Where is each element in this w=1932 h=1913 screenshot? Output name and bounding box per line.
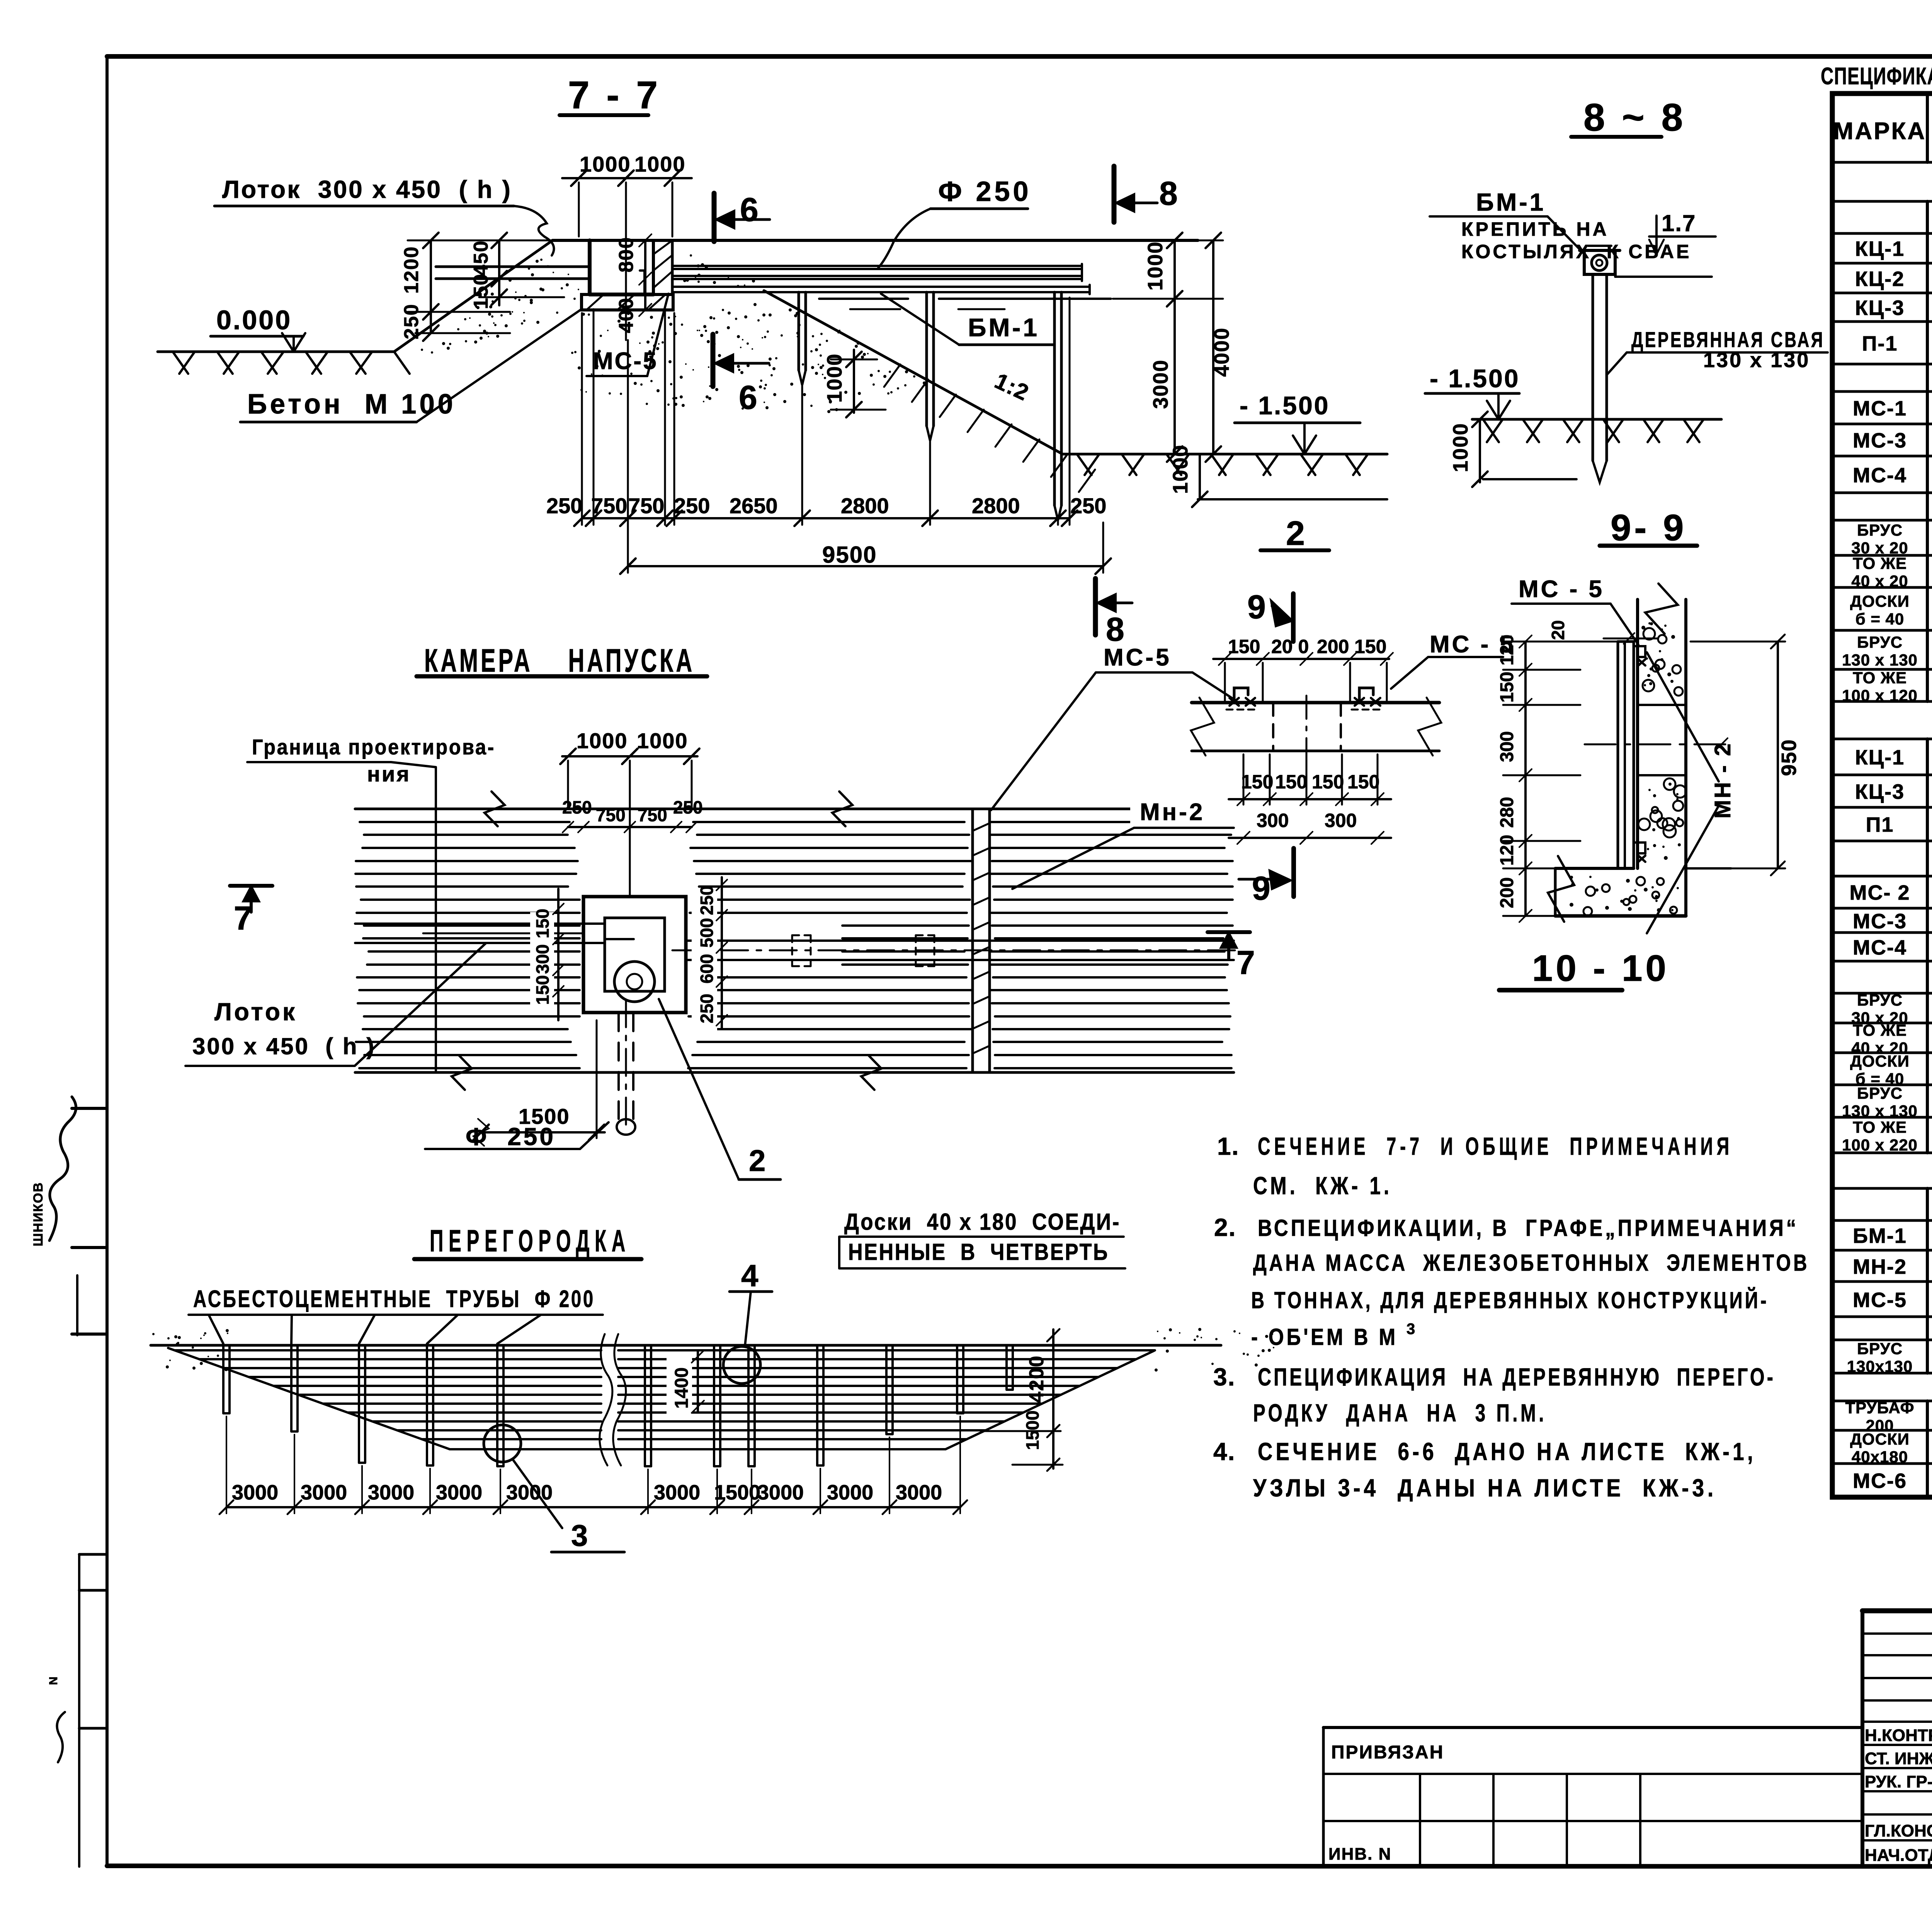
node 3 marker peregorodka [484,1425,521,1462]
svg-text:ПЕРЕГОРОДКА: ПЕРЕГОРОДКА [430,1224,631,1258]
svg-text:ТО ЖЕ: ТО ЖЕ [1853,1118,1907,1136]
svg-text:Бетон М 100: Бетон М 100 [247,389,456,420]
detail 2 clamps MC-5 [1234,688,1248,703]
svg-text:КЦ-1: КЦ-1 [1855,746,1905,769]
svg-text:7 - 7: 7 - 7 [568,73,661,117]
right vertical dimension chain 7-7 [1198,240,1223,242]
svg-text:250: 250 [400,303,423,339]
section marker 6 lower 7-7 [711,334,716,386]
svg-text:УЗЛЫ 3-4 ДАНЫ НА ЛИСТЕ КЖ-3.: УЗЛЫ 3-4 ДАНЫ НА ЛИСТЕ КЖ-3. [1253,1474,1717,1502]
svg-text:3000: 3000 [506,1481,553,1504]
svg-text:КЦ-2: КЦ-2 [1855,267,1905,291]
svg-text:- 1.500: - 1.500 [1240,391,1330,420]
lower ground right 7-7 [1063,453,1387,456]
svg-text:1.7: 1.7 [1662,210,1696,236]
svg-text:ИНВ. N: ИНВ. N [1328,1845,1391,1864]
section marker 7 right of plan [1207,930,1250,934]
svg-text:КЦ-3: КЦ-3 [1855,780,1905,803]
svg-text:1500: 1500 [714,1481,760,1504]
svg-text:ШНИКОВ: ШНИКОВ [31,1182,46,1246]
svg-text:120: 120 [1497,835,1517,866]
svg-text:2650: 2650 [730,494,778,518]
svg-text:3000: 3000 [757,1481,804,1504]
svg-text:ВСПЕЦИФИКАЦИИ, В ГРАФЕ„ПРИМЕЧ: ВСПЕЦИФИКАЦИИ, В ГРАФЕ„ПРИМЕЧАНИЯ“ [1258,1215,1799,1241]
svg-text:1400: 1400 [672,1367,692,1409]
waterline right of pile 8-8 [1615,276,1712,278]
detail 2 dims 300 300 [1229,837,1391,839]
svg-text:300 х 450 ( h ): 300 х 450 ( h ) [192,1033,376,1059]
sand dots under chamber 7-7 [740,371,743,374]
svg-text:МН - 2: МН - 2 [1710,742,1735,819]
svg-text:- ОБ'ЕМ В М: - ОБ'ЕМ В М [1251,1324,1398,1350]
svg-text:2: 2 [1286,514,1305,552]
svg-text:130 х 130: 130 х 130 [1842,651,1918,669]
svg-text:400: 400 [615,297,638,333]
plan left rotated dims 150 300 150 [530,912,554,1013]
svg-text:МС - 5: МС - 5 [1519,576,1604,602]
svg-text:150: 150 [1275,771,1307,793]
boundary line vertical plan [435,767,437,1071]
pile 8-8 [1592,275,1594,461]
svg-text:ДАНА МАССА ЖЕЛЕЗОБЕТОННЫХ ЭЛ: ДАНА МАССА ЖЕЛЕЗОБЕТОННЫХ ЭЛЕМЕНТОВ [1253,1250,1810,1276]
svg-text:3: 3 [571,1518,588,1552]
svg-text:БМ-1: БМ-1 [1853,1224,1907,1248]
svg-text:МС-5: МС-5 [1104,644,1172,671]
svg-text:БРУС: БРУС [1857,1339,1903,1358]
pipe lines plan to the right [686,939,1234,942]
svg-text:150: 150 [532,909,553,938]
svg-text:3000: 3000 [232,1481,278,1504]
svg-text:40х180: 40х180 [1852,1448,1908,1466]
svg-text:20: 20 [1548,620,1568,640]
svg-text:1000: 1000 [1449,423,1472,472]
svg-text:КАМЕРА НАПУСКА: КАМЕРА НАПУСКА [424,642,695,679]
spec table vertical lines [1926,94,1929,162]
svg-text:750: 750 [638,805,667,825]
svg-text:3000: 3000 [896,1481,942,1504]
svg-text:750: 750 [596,805,626,825]
axis dash-dot line 10-10 [1585,744,1731,745]
svg-text:130х130: 130х130 [1847,1357,1913,1375]
svg-text:РУК. ГР-: РУК. ГР- [1865,1772,1932,1791]
svg-text:МН-2: МН-2 [1853,1255,1907,1278]
svg-text:ТО ЖЕ: ТО ЖЕ [1853,554,1907,572]
fence bottom diagonals [168,1348,450,1449]
svg-text:ТО ЖЕ: ТО ЖЕ [1853,1021,1907,1039]
svg-text:МАРКА: МАРКА [1833,118,1926,145]
svg-text:СПЕЦИФИКАЦИЯ ЭЛЕМЕНТОВ К МАР: СПЕЦИФИКАЦИЯ ЭЛЕМЕНТОВ К МАРКИРОВОЧНЫМ С… [1821,63,1932,90]
floor slab 10-10 [1555,867,1634,870]
svg-text:100 х 120: 100 х 120 [1842,686,1918,705]
svg-text:200: 200 [1497,877,1517,908]
partition double line plan [971,809,974,1072]
svg-text:500: 500 [697,918,717,948]
wall of section 10-10 [1636,599,1639,868]
fence right dims 4200 1500 [1052,1329,1054,1469]
svg-text:1200: 1200 [400,246,423,294]
svg-text:0.000: 0.000 [216,305,292,335]
svg-text:ГЛ.КОНСТ: ГЛ.КОНСТ [1865,1821,1932,1840]
svg-text:Лоток: Лоток [214,998,297,1026]
dim 1400 in fence middle [667,1353,692,1414]
svg-text:ДЕРЕВЯННАЯ СВАЯ: ДЕРЕВЯННАЯ СВАЯ [1631,327,1825,352]
svg-text:300: 300 [1257,810,1289,831]
svg-text:МС-5: МС-5 [1853,1288,1907,1312]
svg-text:КЦ-1: КЦ-1 [1855,237,1905,260]
svg-text:МС-3: МС-3 [1853,429,1907,452]
svg-text:П1: П1 [1866,813,1894,836]
svg-text:4: 4 [741,1258,759,1293]
svg-text:250: 250 [697,994,717,1023]
svg-text:6: 6 [739,379,757,416]
pond bottom edge line plan [355,1071,1234,1074]
svg-text:4000: 4000 [1210,327,1233,377]
svg-text:9: 9 [1247,589,1266,626]
svg-text:ПРИВЯЗАН: ПРИВЯЗАН [1331,1742,1444,1763]
svg-text:40 х 20: 40 х 20 [1851,572,1908,590]
svg-text:100 х 220: 100 х 220 [1842,1136,1918,1154]
svg-text:300: 300 [1497,731,1517,762]
fence planks [175,1349,601,1351]
svg-text:3000: 3000 [654,1481,700,1504]
svg-text:МС-3: МС-3 [1853,910,1907,933]
svg-text:БРУС: БРУС [1857,633,1903,651]
wall pebbles 10-10 [1647,674,1650,677]
svg-text:Ф 250: Ф 250 [938,176,1032,207]
section marker 7 left of plan [230,884,272,888]
svg-text:ДОСКИ: ДОСКИ [1850,1430,1910,1448]
svg-text:150: 150 [1354,636,1386,657]
svg-text:АСБЕСТОЦЕМЕНТНЫЕ ТРУБЫ Ф 200: АСБЕСТОЦЕМЕНТНЫЕ ТРУБЫ Ф 200 [193,1286,595,1312]
chamber bottom slab 7-7 [582,294,673,310]
svg-text:СПЕЦИФИКАЦИЯ НА ДЕРЕВЯННУЮ П: СПЕЦИФИКАЦИЯ НА ДЕРЕВЯННУЮ ПЕРЕГО- [1258,1363,1776,1391]
svg-text:150: 150 [1347,771,1379,793]
svg-text:Мн-2: Мн-2 [1140,799,1205,825]
water hatch lines plan right of partition [991,821,1223,823]
label MN-2 right of plan [1130,794,1238,827]
svg-text:9- 9: 9- 9 [1611,507,1687,548]
svg-text:750: 750 [628,494,664,518]
stamp grid thin rows [1862,1632,1932,1635]
ground line 8-8 [1472,418,1721,421]
svg-text:КЦ-3: КЦ-3 [1855,296,1905,320]
svg-text:МС-1: МС-1 [1853,397,1907,420]
slope 1 to 2 line 7-7 [764,291,1063,454]
svg-text:КРЕПИТЬ НА: КРЕПИТЬ НА [1461,218,1609,240]
svg-text:3000: 3000 [436,1481,482,1504]
svg-text:3000: 3000 [368,1481,414,1504]
svg-text:600: 600 [697,954,717,984]
svg-text:Н.КОНТР-: Н.КОНТР- [1865,1726,1932,1745]
svg-text:3000: 3000 [301,1481,347,1504]
plan dim 250 750 750 250 [568,826,692,828]
svg-text:2: 2 [749,1144,765,1178]
svg-text:БРУС: БРУС [1857,1084,1903,1102]
top clamp MC-5 10-10 [1634,646,1645,657]
right dim 950 10-10 [1777,642,1779,868]
svg-text:ТО ЖЕ: ТО ЖЕ [1853,669,1907,687]
svg-text:1.: 1. [1217,1132,1239,1160]
svg-text:450: 450 [470,240,492,276]
chamber square plan [583,897,686,1013]
svg-text:150: 150 [1497,672,1517,703]
svg-text:3000: 3000 [827,1481,873,1504]
pond top edge line plan [355,808,1234,810]
svg-text:СМ. КЖ- 1.: СМ. КЖ- 1. [1253,1172,1392,1200]
svg-text:- 1.500: - 1.500 [1430,364,1520,393]
fence bottom dim chain [226,1506,960,1508]
embankment slope line 7-7 [394,240,553,352]
svg-text:б = 40: б = 40 [1855,610,1905,628]
svg-text:1000: 1000 [823,353,846,403]
svg-text:120: 120 [1497,635,1517,665]
pile cap squares on pipe plan [792,934,811,936]
svg-text:2800: 2800 [972,494,1020,518]
svg-text:7: 7 [1236,944,1255,981]
chamber right wall hatched 7-7 [653,240,672,294]
svg-text:9500: 9500 [822,542,877,568]
svg-text:280: 280 [1497,797,1517,828]
sheet border frame [107,54,1932,59]
section marker 8 upper right 7-7 [1112,166,1117,222]
svg-text:НАЧ.ОТД: НАЧ.ОТД [1865,1846,1932,1865]
bottom dimension chain 7-7 [582,517,1070,519]
svg-text:250: 250 [673,797,703,817]
svg-text:МС-4: МС-4 [1853,936,1907,959]
svg-text:9: 9 [1252,870,1270,907]
svg-text:1000: 1000 [577,728,628,753]
dim 800 inside chamber 7-7 [644,240,646,279]
svg-text:1000: 1000 [637,728,688,753]
walkway deck lines 7-7 [672,286,1090,288]
svg-text:ния: ния [367,762,411,786]
svg-text:150: 150 [470,273,492,309]
svg-text:СЕЧЕНИЕ 6-6 ДАНО НА ЛИСТЕ К: СЕЧЕНИЕ 6-6 ДАНО НА ЛИСТЕ КЖ-1, [1258,1438,1756,1465]
chamber walls 7-7 [588,240,592,294]
svg-text:8: 8 [1159,175,1178,212]
svg-text:250: 250 [562,797,592,817]
water hatch lines plan left block [360,821,570,823]
svg-text:150: 150 [1228,636,1260,657]
dim 400 below chamber 7-7 [644,279,646,310]
svg-text:10 - 10: 10 - 10 [1532,948,1669,989]
svg-text:250: 250 [697,885,717,915]
left dim chain 10-10 [1524,642,1527,916]
inlet channel lines into chamber 7-7 [436,266,590,268]
svg-text:3.: 3. [1213,1363,1235,1391]
svg-text:2.: 2. [1214,1213,1236,1241]
svg-text:БМ-1: БМ-1 [968,313,1039,342]
spec table horizontal lines [1832,161,1932,164]
svg-text:1000: 1000 [1144,241,1167,291]
svg-text:Граница проектирова-: Граница проектирова- [252,735,495,759]
sand dots left wedge 7-7 [489,305,492,308]
water dashes right 7-7 [819,298,908,300]
svg-text:БМ-1: БМ-1 [1476,188,1546,216]
bottom clamp 10-10 [1634,842,1645,853]
svg-text:150: 150 [532,975,553,1005]
svg-text:П-1: П-1 [1862,332,1898,355]
svg-text:250: 250 [674,494,710,518]
svg-text:750: 750 [591,494,627,518]
svg-text:1:2: 1:2 [991,368,1033,406]
fence ground line and top [151,1344,1221,1347]
svg-text:ДОСКИ: ДОСКИ [1850,1052,1910,1070]
svg-text:300: 300 [1325,810,1357,831]
fence middle break marks [600,1334,612,1465]
overall dim 9500 7-7 [628,565,1103,567]
water hatch lines plan right block [693,821,964,823]
svg-text:200: 200 [1317,636,1349,657]
svg-text:ТРУБАФ: ТРУБАФ [1845,1399,1915,1417]
ground line left 7-7 [158,351,394,353]
svg-text:N: N [47,1676,60,1685]
svg-text:Доски 40 х 180 СОЕДИ-: Доски 40 х 180 СОЕДИ- [844,1209,1121,1235]
svg-text:МС-6: МС-6 [1853,1469,1907,1493]
left margin handwritten signature [49,1097,76,1241]
svg-text:ДОСКИ: ДОСКИ [1850,592,1910,610]
spec table outer frame [1832,94,1932,1497]
left vertical dims 7-7 chamber [498,240,500,305]
svg-text:8: 8 [1106,611,1124,648]
plan right rotated dims 250 500 600 250 [692,889,717,1031]
ground dots ends peregorodka [152,1333,155,1335]
svg-text:2800: 2800 [841,494,889,518]
inlet channel plan [355,922,605,925]
left margin tick marks and stamps [72,1107,107,1110]
stamp grid name rows [1862,1744,1932,1746]
detail 2 lower dims 150x4 [1229,798,1391,800]
svg-text:250: 250 [1070,494,1106,518]
svg-text:7: 7 [234,900,252,937]
section marker 8 right of 7-7 dims [1093,579,1098,635]
svg-text:130 х 130: 130 х 130 [1842,1102,1918,1120]
svg-text:Ф 250: Ф 250 [466,1123,556,1151]
mc-5 bracket inside chamber 7-7 [643,271,646,294]
svg-text:6: 6 [740,191,759,228]
berm top line 7-7 [553,239,1198,242]
svg-text:БРУС: БРУС [1857,991,1903,1009]
piles in 7-7 [798,292,800,370]
svg-text:Лоток 300 х 450 ( h ): Лоток 300 х 450 ( h ) [222,175,512,203]
svg-text:250: 250 [546,494,582,518]
svg-text:НЕННЫЕ В ЧЕТВЕРТЬ: НЕННЫЕ В ЧЕТВЕРТЬ [848,1239,1109,1265]
pile depth dim 1000 under slope 7-7 [853,350,855,413]
svg-text:СЕЧЕНИЕ 7-7 И ОБЩИЕ ПРИМЕЧА: СЕЧЕНИЕ 7-7 И ОБЩИЕ ПРИМЕЧАНИЯ [1258,1132,1733,1160]
svg-text:МС-4: МС-4 [1853,464,1907,487]
board against wall 10-10 [1617,642,1619,868]
svg-text:В ТОННАХ, ДЛЯ ДЕРЕВЯННЫХ КОНСТ: В ТОННАХ, ДЛЯ ДЕРЕВЯННЫХ КОНСТРУКЦИЙ- [1251,1287,1769,1313]
svg-text:20 0: 20 0 [1271,636,1309,657]
svg-text:8 ~ 8: 8 ~ 8 [1583,96,1686,139]
pipe F250 in 7-7 [672,265,1082,267]
svg-text:1000: 1000 [580,152,631,176]
svg-text:РОДКУ ДАНА НА 3 П.М.: РОДКУ ДАНА НА 3 П.М. [1253,1399,1547,1427]
svg-text:150: 150 [1312,771,1344,793]
fence posts [222,1345,224,1413]
svg-text:БРУС: БРУС [1857,521,1903,539]
svg-text:300: 300 [532,944,553,974]
section marker 6 upper 7-7 [712,193,717,242]
manhole circle plan [614,962,655,1002]
svg-text:950: 950 [1777,739,1801,776]
svg-text:МС- 2: МС- 2 [1850,881,1910,904]
svg-text:4.: 4. [1213,1438,1235,1465]
detail 2 plank body [1192,701,1439,705]
svg-text:3000: 3000 [1149,359,1172,409]
beam clamp on pile top 8-8 [1584,250,1615,274]
outlet pipe dashed below chamber plan [617,1013,620,1119]
svg-text:150: 150 [1241,771,1273,793]
dim 1000 embedment 8-8 [1479,419,1481,482]
title block outer frame [1862,1608,1932,1613]
small table privyazan [1323,1726,1862,1729]
detail 2 dashed verticals [1272,703,1274,751]
svg-text:1000: 1000 [1169,444,1192,494]
svg-text:800: 800 [615,237,638,272]
svg-text:3: 3 [1406,1321,1415,1338]
svg-text:СТ. ИНЖ.: СТ. ИНЖ. [1865,1749,1932,1768]
svg-text:4200: 4200 [1026,1355,1048,1403]
